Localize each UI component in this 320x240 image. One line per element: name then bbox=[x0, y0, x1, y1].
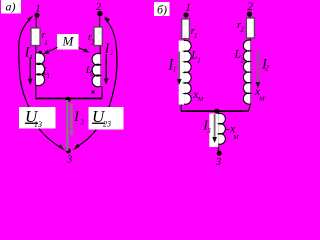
svg-text:2: 2 bbox=[90, 69, 94, 77]
svg-text:1: 1 bbox=[47, 72, 51, 80]
svg-text:б): б) bbox=[157, 3, 167, 17]
svg-text:1: 1 bbox=[30, 54, 33, 61]
svg-text:1: 1 bbox=[35, 3, 41, 15]
svg-text:3: 3 bbox=[206, 127, 211, 135]
svg-text:1: 1 bbox=[194, 32, 198, 40]
svg-text:1: 1 bbox=[44, 39, 48, 47]
svg-text:1: 1 bbox=[197, 56, 201, 64]
svg-text:3: 3 bbox=[66, 155, 72, 166]
svg-text:2: 2 bbox=[240, 26, 244, 34]
svg-text:13: 13 bbox=[34, 120, 42, 129]
svg-text:1: 1 bbox=[185, 2, 191, 14]
svg-text:2: 2 bbox=[265, 65, 269, 73]
svg-text:2: 2 bbox=[96, 1, 102, 13]
svg-text:2: 2 bbox=[247, 1, 253, 13]
svg-text:I: I bbox=[73, 109, 80, 125]
svg-text:M: M bbox=[232, 134, 239, 141]
svg-text:M: M bbox=[197, 96, 204, 103]
svg-text:3: 3 bbox=[215, 156, 222, 168]
svg-text:3: 3 bbox=[79, 118, 84, 126]
svg-text:M: M bbox=[258, 95, 265, 102]
svg-text:2: 2 bbox=[241, 56, 245, 64]
svg-text:1: 1 bbox=[173, 66, 177, 74]
svg-text:23: 23 bbox=[103, 120, 111, 129]
svg-text:а): а) bbox=[6, 0, 16, 14]
svg-text:M: M bbox=[62, 34, 75, 49]
svg-text:2: 2 bbox=[91, 39, 95, 47]
